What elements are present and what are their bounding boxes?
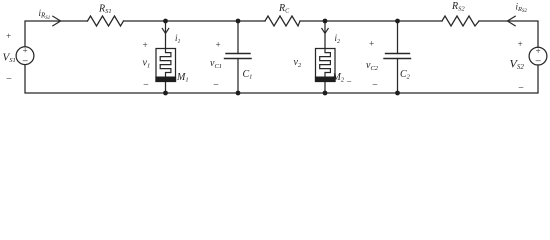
capacitor C1 xyxy=(225,54,252,59)
svg-text:iRS1: iRS1 xyxy=(39,8,51,21)
wire top rail middle-left segment xyxy=(124,20,266,22)
svg-text:−: − xyxy=(372,80,379,91)
svg-text:−: − xyxy=(213,80,220,91)
junction dot C1 bottom xyxy=(236,91,241,96)
resistor Rc xyxy=(265,16,300,26)
svg-text:vC1: vC1 xyxy=(210,58,222,70)
svg-text:+: + xyxy=(22,46,28,56)
svg-text:−: − xyxy=(346,77,352,87)
junction dot C2 top xyxy=(395,19,400,24)
memristor M2 box xyxy=(316,49,336,82)
svg-text:RS2: RS2 xyxy=(451,1,465,12)
svg-text:i2: i2 xyxy=(335,33,341,45)
svg-text:iRS2: iRS2 xyxy=(516,2,528,14)
svg-text:−: − xyxy=(143,80,150,91)
memristor M1 meander xyxy=(160,49,171,77)
svg-text:+: + xyxy=(535,46,541,56)
junction dot M2 top xyxy=(323,19,328,24)
svg-text:v2: v2 xyxy=(294,57,302,69)
svg-text:VS2: VS2 xyxy=(510,57,525,72)
junction dot C1 top xyxy=(236,19,241,24)
wire M1 branch bottom xyxy=(165,82,167,94)
junction dot M2 bottom xyxy=(323,91,328,96)
current arrow i2 xyxy=(322,28,328,33)
svg-text:i1: i1 xyxy=(175,33,181,45)
resistor RS1 xyxy=(88,16,124,26)
svg-text:VS1: VS1 xyxy=(3,52,16,64)
svg-text:M1: M1 xyxy=(176,72,189,84)
memristor M1 box xyxy=(156,49,176,82)
wire C2 branch top xyxy=(397,21,399,54)
svg-text:+: + xyxy=(215,40,221,50)
voltage source VS2 xyxy=(529,47,547,65)
svg-text:C1: C1 xyxy=(243,69,253,81)
current arrow i_RS2 xyxy=(507,16,515,26)
svg-text:−: − xyxy=(518,83,525,94)
wire top rail left segment xyxy=(25,21,88,47)
svg-text:vC2: vC2 xyxy=(366,60,379,72)
svg-text:−: − xyxy=(21,56,28,68)
svg-text:v1: v1 xyxy=(143,58,151,70)
junction dot M1 top xyxy=(163,19,168,24)
resistor RS2 xyxy=(442,16,479,26)
capacitor C2 xyxy=(384,54,411,59)
svg-text:+: + xyxy=(517,39,523,49)
junction dot C2 bottom xyxy=(395,91,400,96)
wire C1 branch top xyxy=(237,21,239,54)
wire M2 branch bottom xyxy=(324,82,326,94)
memristor M2 meander xyxy=(320,49,331,77)
svg-text:C2: C2 xyxy=(400,69,411,81)
wire bottom rail xyxy=(25,65,538,93)
wire M1 branch top xyxy=(165,21,167,49)
voltage source VS1 xyxy=(16,47,34,65)
svg-text:RS1: RS1 xyxy=(98,4,112,15)
svg-text:+: + xyxy=(368,39,374,49)
wire C2 branch bottom xyxy=(397,59,399,94)
svg-text:−: − xyxy=(534,56,541,68)
svg-text:−: − xyxy=(6,74,13,85)
svg-text:M2: M2 xyxy=(332,72,345,84)
svg-text:+: + xyxy=(142,40,148,50)
wire top rail right segment xyxy=(479,21,538,47)
wire top rail middle-right segment xyxy=(300,20,442,22)
svg-text:+: + xyxy=(5,31,11,41)
svg-text:RC: RC xyxy=(278,3,290,14)
current arrow i1 xyxy=(162,28,168,33)
junction dot M1 bottom xyxy=(163,91,168,96)
memristor M1 bar xyxy=(155,77,176,83)
current arrow i_RS1 xyxy=(53,16,61,26)
wire C1 branch bottom xyxy=(237,59,239,94)
wire M2 branch top xyxy=(324,21,326,49)
memristor M2 bar xyxy=(315,77,336,83)
